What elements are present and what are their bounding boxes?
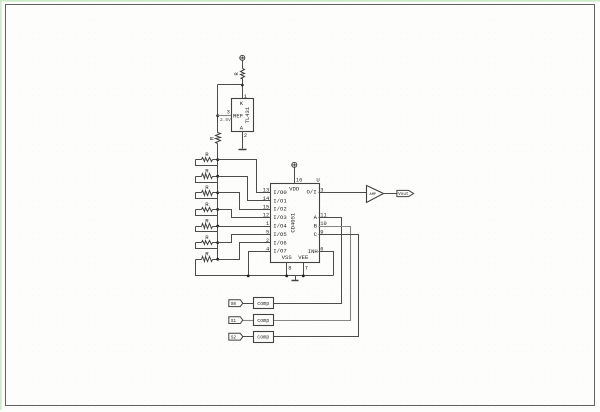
- svg-text:1: 1: [266, 221, 269, 227]
- svg-text:INH: INH: [308, 248, 318, 255]
- wire ladder wrap: [196, 193, 218, 199]
- svg-text:1: 1: [244, 94, 247, 100]
- junction dot ladder tap 1: [216, 158, 219, 161]
- port S1 tag: [229, 317, 243, 324]
- ground GND2: [292, 276, 299, 281]
- svg-text:16: 16: [296, 177, 302, 183]
- wire trunk lower (series R to ladder): [217, 144, 219, 260]
- wire VCC to pull-up resistor: [242, 61, 244, 69]
- junction dot ladder tap 3: [216, 191, 219, 194]
- junction dot ladder tap 7: [216, 258, 219, 261]
- wire INH pin 6 to rail: [319, 252, 334, 276]
- svg-text:7: 7: [305, 265, 308, 271]
- svg-text:8: 8: [288, 265, 291, 271]
- junction dot VEE: [302, 275, 305, 278]
- junction dot I/O7 ground: [247, 275, 250, 278]
- wire ladder wrap: [196, 210, 218, 216]
- svg-text:I/O2: I/O2: [273, 206, 286, 213]
- wire pull-up to TL431 K: [242, 79, 244, 99]
- wire pin 9 C to comp S2: [274, 235, 359, 337]
- svg-text:2: 2: [244, 133, 247, 139]
- op TL431 U (shunt reference) box: [232, 99, 254, 132]
- wire VEE pin 7 to rail: [303, 263, 305, 276]
- svg-text:I/O6: I/O6: [273, 239, 286, 246]
- svg-text:13: 13: [263, 188, 269, 194]
- svg-text:VEE: VEE: [298, 254, 309, 261]
- wire amp output: [384, 193, 397, 195]
- svg-text:VSS: VSS: [282, 254, 293, 261]
- svg-text:14: 14: [263, 196, 269, 202]
- svg-text:2.5V: 2.5V: [220, 117, 231, 123]
- svg-text:S1: S1: [231, 318, 237, 324]
- junction dot ladder tap 4: [216, 208, 219, 211]
- resistor R (ladder 3): [196, 184, 218, 195]
- power symbol VCC (TL431 pull-up): [240, 55, 245, 60]
- svg-text:15: 15: [263, 204, 269, 210]
- wire port S0 to comp: [243, 303, 254, 305]
- junction dot ladder tap 6: [216, 241, 219, 244]
- mux U CD4051 box: [271, 184, 320, 263]
- svg-text:TL431: TL431: [244, 106, 251, 123]
- wire tap 6 to pin I/O6: [218, 243, 271, 260]
- junction dot REF tap: [216, 114, 219, 117]
- svg-text:U: U: [316, 176, 319, 183]
- port S2 tag: [229, 333, 243, 340]
- wire ladder wrap: [196, 160, 218, 166]
- wire VDD pin 16: [294, 168, 296, 184]
- wire tap 3 to pin I/O3: [218, 210, 271, 218]
- port Vout tag: [397, 190, 414, 197]
- wire tap 0 to pin I/O0: [218, 160, 271, 193]
- resistor R (ladder 2): [196, 168, 218, 179]
- power symbol VCC (VDD): [292, 162, 297, 167]
- wire O/I pin 3 to amp: [319, 192, 367, 194]
- resistor R (ladder 5): [196, 217, 218, 228]
- resistor R (ladder 1): [196, 151, 218, 162]
- amp buffer AMP: [367, 186, 384, 203]
- comp box S1: [254, 315, 274, 326]
- wire trunk upper (K to REF to series R): [217, 85, 219, 133]
- resistor R (pull-up): [233, 69, 244, 79]
- junction dot ladder tap 2: [216, 175, 219, 178]
- svg-text:I/O1: I/O1: [273, 197, 287, 204]
- svg-text:O/I: O/I: [307, 189, 317, 196]
- comp box S0: [254, 298, 274, 309]
- junction dot VSS: [285, 275, 288, 278]
- wire port S2 to comp: [243, 336, 254, 338]
- wire REF (gray): [218, 115, 232, 117]
- junction dot K node: [241, 84, 244, 87]
- wire TL431 A to ground: [242, 132, 244, 149]
- svg-text:S0: S0: [231, 301, 237, 307]
- wire ladder bottom to ground rail: [196, 260, 334, 276]
- svg-text:5: 5: [266, 230, 269, 236]
- wire ladder wrap: [196, 227, 218, 232]
- svg-text:I/O5: I/O5: [273, 231, 286, 238]
- wire tap 1 to pin I/O1: [218, 177, 271, 201]
- resistor R (ladder 7): [196, 251, 218, 262]
- wire port S1 to comp: [243, 320, 254, 322]
- port S0 tag: [229, 300, 243, 307]
- svg-text:I/O3: I/O3: [273, 214, 286, 221]
- svg-text:I/O0: I/O0: [273, 189, 287, 196]
- wire pin 10 B to comp S1 (gray): [274, 227, 351, 321]
- svg-text:AMP: AMP: [370, 193, 376, 197]
- svg-text:4: 4: [266, 246, 269, 252]
- svg-text:CD4051: CD4051: [289, 212, 296, 233]
- resistor R (ladder 4): [196, 201, 218, 212]
- svg-text:S2: S2: [231, 334, 237, 340]
- svg-text:2: 2: [266, 238, 269, 244]
- resistor R (ladder 6): [196, 234, 218, 245]
- svg-text:REF: REF: [233, 113, 243, 120]
- svg-text:3: 3: [227, 110, 230, 116]
- comp box S2: [254, 332, 274, 343]
- wire tap 2 to pin I/O2: [218, 193, 271, 210]
- wire ground rail to pin I/O7: [249, 252, 271, 276]
- svg-text:comp: comp: [257, 318, 269, 324]
- wire VSS pin 8 to rail: [286, 263, 288, 276]
- wire ladder wrap: [196, 177, 218, 183]
- svg-text:6: 6: [320, 246, 323, 252]
- junction dot ladder tap 5: [216, 225, 219, 228]
- svg-text:Vout: Vout: [398, 192, 409, 197]
- svg-text:comp: comp: [257, 335, 269, 341]
- wire pin 11 A to comp S0: [274, 218, 342, 304]
- resistor R (series, trunk): [209, 133, 221, 144]
- wire tap 4 to pin I/O4: [218, 226, 271, 228]
- pin number labels left: [263, 188, 269, 253]
- wire K node to trunk: [218, 84, 243, 86]
- wire tap 5 to pin I/O5: [218, 235, 271, 243]
- svg-text:VDD: VDD: [289, 186, 300, 193]
- svg-text:I/O4: I/O4: [273, 223, 287, 230]
- wire ladder wrap: [196, 243, 218, 249]
- svg-text:comp: comp: [257, 301, 269, 307]
- ground GND1: [239, 149, 247, 151]
- svg-text:12: 12: [263, 213, 269, 219]
